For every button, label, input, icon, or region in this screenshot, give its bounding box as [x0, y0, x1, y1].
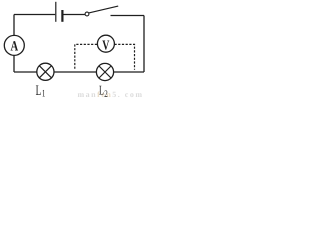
voltmeter dashed lead left — [75, 44, 98, 68]
wire left vertical lower — [13, 56, 15, 73]
battery short plate (-) — [61, 10, 63, 22]
svg-text:V: V — [102, 38, 109, 53]
svg-text:L: L — [36, 83, 42, 98]
wire battery to switch — [63, 14, 85, 16]
lamp L2 circle — [96, 63, 113, 80]
wire right vertical — [143, 16, 145, 73]
wire between lamps — [54, 71, 96, 73]
battery long plate (+) — [55, 2, 57, 22]
svg-text:2: 2 — [104, 89, 108, 98]
lamp L2 cross — [99, 66, 111, 78]
voltmeter circle — [97, 35, 114, 52]
lamp L1 circle — [37, 63, 54, 80]
lamp L1 cross — [39, 66, 51, 78]
switch lever — [89, 6, 118, 13]
svg-text:manfen5. com: manfen5. com — [78, 90, 144, 98]
wire left vertical upper — [13, 15, 15, 36]
wire bottom left segment — [14, 71, 37, 73]
ammeter circle — [4, 35, 24, 55]
wire bottom right segment — [114, 71, 144, 73]
voltmeter dashed lead right — [115, 44, 135, 69]
svg-text:L: L — [99, 83, 104, 98]
wire switch to top-right corner — [111, 15, 145, 17]
wire top left segment — [14, 14, 55, 16]
svg-text:1: 1 — [42, 89, 46, 98]
svg-text:A: A — [11, 38, 19, 54]
switch pivot circle — [85, 12, 89, 16]
